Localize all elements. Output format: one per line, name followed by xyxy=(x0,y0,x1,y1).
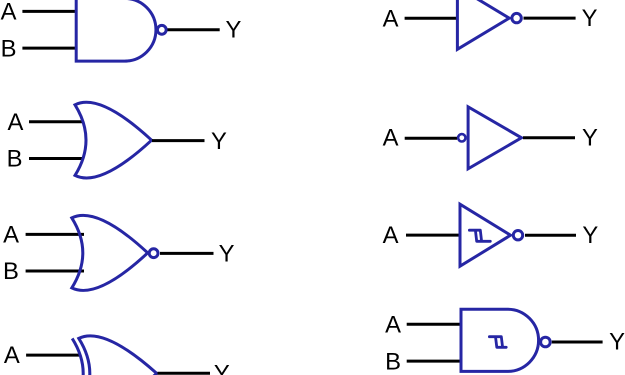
wire A to Schmitt inverter xyxy=(406,234,459,237)
wire NOT to Y xyxy=(524,17,576,20)
NOR gate body xyxy=(72,215,148,290)
svg-text:A: A xyxy=(383,6,399,33)
svg-text:Y: Y xyxy=(225,17,241,44)
NAND gate body xyxy=(76,0,156,61)
Schmitt inverter output bubble xyxy=(513,231,522,240)
buffer triangle xyxy=(468,107,521,169)
Schmitt NAND body xyxy=(461,309,539,371)
wire NAND to Y xyxy=(168,28,220,31)
wire NOR to Y xyxy=(160,252,214,255)
wire B to OR xyxy=(29,157,84,160)
Schmitt NAND output bubble xyxy=(541,337,551,347)
svg-text:B: B xyxy=(1,35,17,62)
wire OR to Y xyxy=(152,139,205,142)
svg-text:Y: Y xyxy=(211,128,227,155)
NOR output bubble xyxy=(149,249,158,258)
svg-text:A: A xyxy=(1,0,17,26)
svg-text:Y: Y xyxy=(219,241,235,268)
hysteresis symbol (Schmitt inverter) xyxy=(469,230,490,241)
svg-text:Y: Y xyxy=(582,125,598,152)
svg-text:A: A xyxy=(3,222,19,249)
wire XOR to Y xyxy=(158,372,211,375)
wire A to XOR xyxy=(26,354,80,357)
XOR extra input arc xyxy=(72,338,83,375)
wire A to NOT xyxy=(405,17,458,20)
svg-text:A: A xyxy=(4,342,20,369)
svg-text:Y: Y xyxy=(582,222,598,249)
svg-text:A: A xyxy=(383,125,399,152)
wire A to input bubble xyxy=(405,137,457,140)
NOT output bubble xyxy=(512,13,521,22)
svg-text:B: B xyxy=(3,258,19,285)
wire B to NOR xyxy=(26,270,84,273)
svg-text:A: A xyxy=(7,109,23,136)
svg-text:Y: Y xyxy=(214,361,230,375)
wire A to OR xyxy=(29,120,84,123)
NAND output bubble xyxy=(157,25,166,34)
wire B to NAND xyxy=(22,47,77,50)
wire buffer to Y xyxy=(523,136,575,139)
wire A to NAND xyxy=(22,10,77,13)
buffer input bubble xyxy=(458,134,465,141)
svg-text:B: B xyxy=(385,349,401,375)
wire Schmitt inverter to Y xyxy=(525,234,576,237)
svg-text:B: B xyxy=(7,146,23,173)
svg-text:Y: Y xyxy=(609,328,625,355)
wire A to Schmitt NAND xyxy=(407,323,461,326)
svg-text:A: A xyxy=(385,312,401,339)
XOR gate body xyxy=(79,336,157,375)
wire A to NOR xyxy=(26,233,84,236)
NOT triangle xyxy=(457,0,509,49)
hysteresis symbol (Schmitt NAND) xyxy=(489,337,506,348)
svg-text:A: A xyxy=(383,222,399,249)
svg-text:Y: Y xyxy=(582,5,598,32)
Schmitt inverter triangle xyxy=(460,204,511,266)
wire Schmitt NAND to Y xyxy=(552,341,603,344)
OR gate body xyxy=(75,102,152,178)
wire B to Schmitt NAND xyxy=(407,360,461,363)
